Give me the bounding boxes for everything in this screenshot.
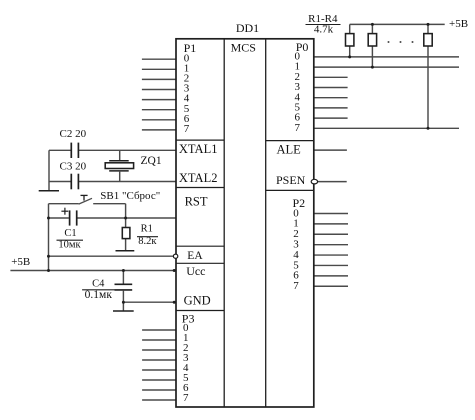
svg-text:7: 7: [184, 123, 190, 135]
svg-text:XTAL2: XTAL2: [179, 171, 218, 185]
svg-text:C2 20: C2 20: [60, 128, 87, 140]
svg-text:+5B: +5B: [449, 18, 468, 30]
svg-text:EA: EA: [187, 250, 203, 262]
svg-text:0.1мк: 0.1мк: [85, 289, 113, 301]
svg-text:RST: RST: [185, 195, 208, 209]
svg-text:ZQ1: ZQ1: [141, 155, 162, 167]
svg-text:8.2к: 8.2к: [138, 236, 157, 247]
svg-text:10мк: 10мк: [58, 240, 81, 251]
svg-text:4.7k: 4.7k: [314, 24, 334, 36]
svg-text:MCS: MCS: [231, 41, 256, 55]
svg-text:C4: C4: [92, 279, 105, 290]
svg-text:7: 7: [293, 280, 299, 292]
svg-text:DD1: DD1: [236, 21, 259, 35]
svg-text:GND: GND: [184, 294, 211, 308]
svg-text:R1: R1: [141, 224, 153, 235]
svg-text:ALE: ALE: [276, 142, 301, 156]
svg-text:SB1 "Сброс": SB1 "Сброс": [100, 190, 160, 202]
svg-text:C1: C1: [64, 228, 76, 239]
svg-text:+5В: +5В: [11, 256, 30, 268]
svg-text:7: 7: [295, 122, 301, 134]
svg-text:PSEN: PSEN: [276, 173, 306, 187]
svg-text:XTAL1: XTAL1: [179, 142, 218, 156]
svg-text:7: 7: [183, 392, 189, 404]
svg-text:C3 20: C3 20: [60, 161, 87, 173]
svg-text:Ucc: Ucc: [186, 264, 205, 278]
